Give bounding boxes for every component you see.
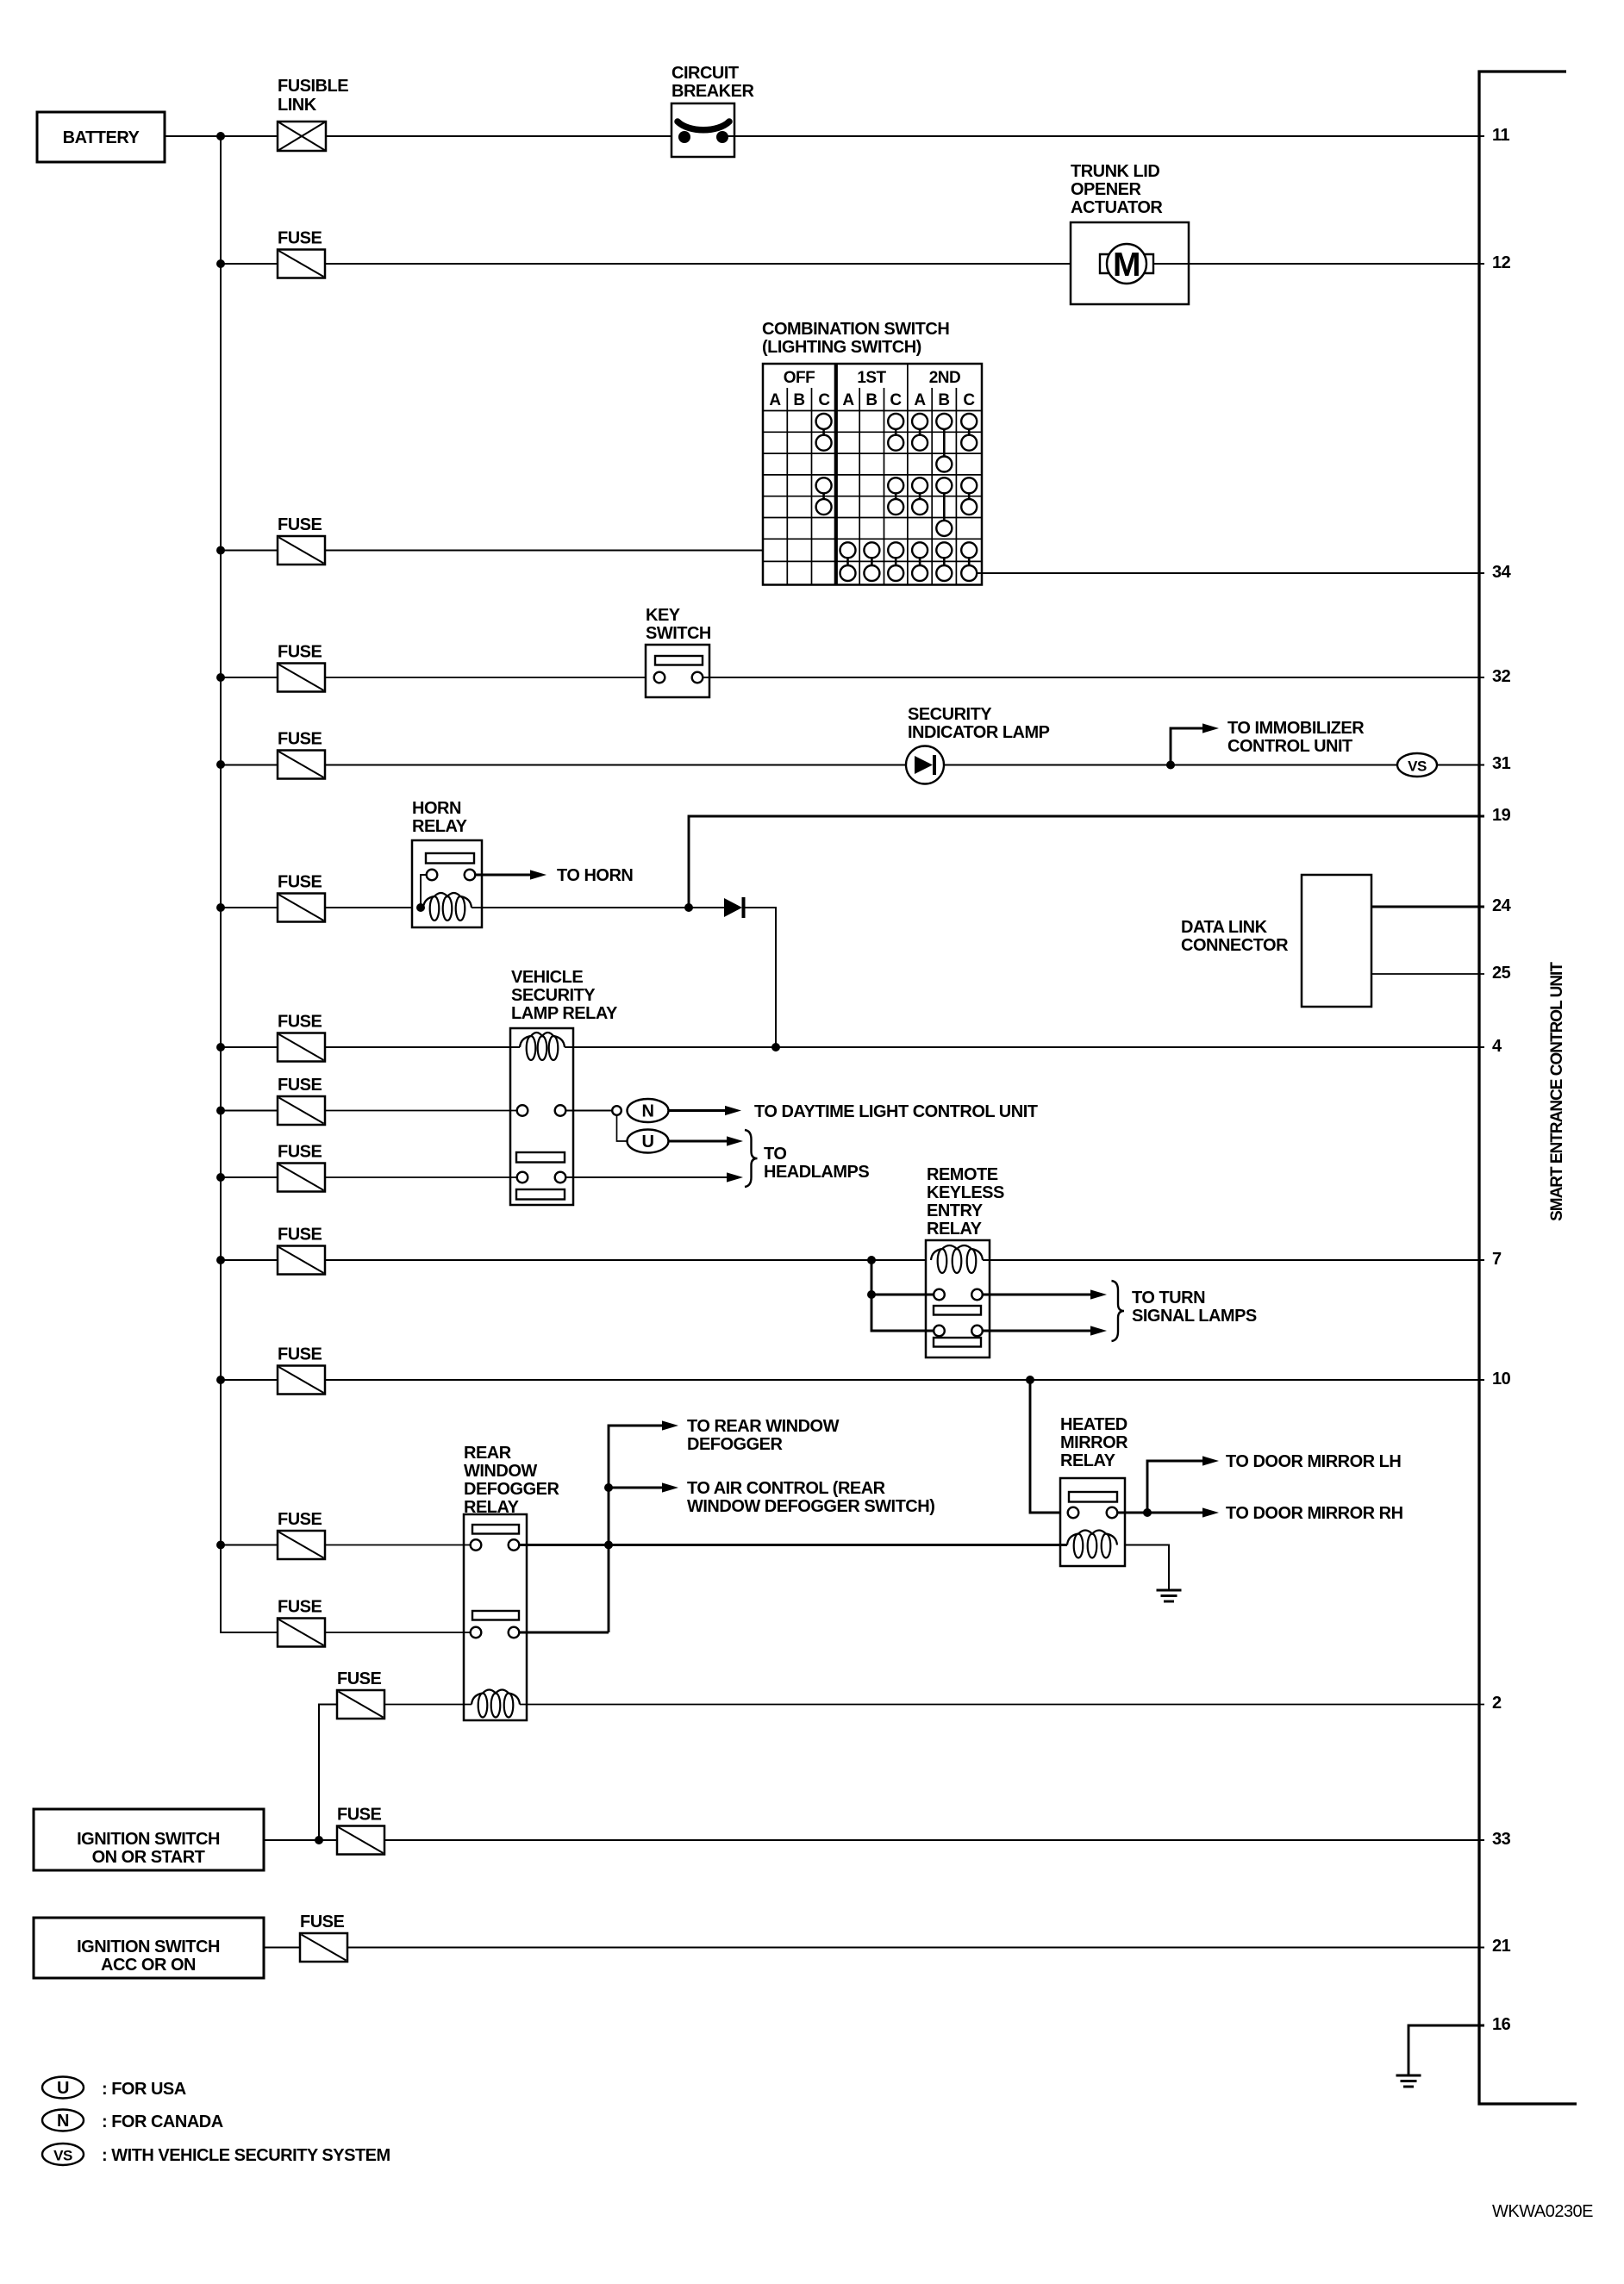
svg-text:FUSE: FUSE xyxy=(278,229,322,248)
wire diode down to pin 4 row xyxy=(744,908,776,1047)
wire combination switch to pin 34 xyxy=(977,572,1484,574)
ground (pin 16) xyxy=(1396,2075,1421,2087)
wire fuse to pin 10 xyxy=(325,1379,1484,1381)
svg-text:RELAY: RELAY xyxy=(1060,1451,1116,1470)
fuse (FUSE) at x=348 row y=2259.5 xyxy=(300,1913,347,1962)
remote keyless entry relay xyxy=(926,1165,1004,1357)
svg-text:: FOR USA: : FOR USA xyxy=(102,2080,186,2099)
svg-text:VS: VS xyxy=(1408,758,1427,775)
svg-text:B: B xyxy=(793,391,804,409)
defogger output riser xyxy=(609,1426,663,1632)
svg-text:32: 32 xyxy=(1492,667,1511,686)
wire relay contact 1 to N branch xyxy=(565,1110,612,1112)
wire fuse to pin 21 xyxy=(347,1947,1484,1949)
wire horn relay to diode xyxy=(472,907,724,908)
arrow TO HORN xyxy=(475,866,633,885)
wire defogger contact 2 to riser xyxy=(519,1632,609,1634)
svg-text:REMOTE: REMOTE xyxy=(927,1165,998,1184)
wire fuse to relay contact 1 xyxy=(325,1110,517,1112)
svg-text:24: 24 xyxy=(1492,896,1512,915)
wire junction xyxy=(216,1541,225,1550)
arrow TO AIR CONTROL xyxy=(609,1479,934,1516)
svg-text:C: C xyxy=(963,391,975,409)
svg-text:A: A xyxy=(842,391,854,409)
svg-text:FUSE: FUSE xyxy=(278,515,322,534)
svg-text:C: C xyxy=(818,391,830,409)
wire circuit breaker to pin 11 xyxy=(728,135,1484,137)
wire junction xyxy=(216,1107,225,1115)
wire keyless relay to pin 7 xyxy=(983,1259,1484,1261)
brace TO HEADLAMPS xyxy=(745,1130,869,1187)
wire ignition branch to coil fuse xyxy=(319,1705,337,1841)
svg-text:CIRCUIT: CIRCUIT xyxy=(671,64,739,83)
fuse (FUSE) at x=322 row y=1601 xyxy=(278,1345,325,1395)
svg-text:N: N xyxy=(57,2112,69,2131)
svg-text:INDICATOR LAMP: INDICATOR LAMP xyxy=(908,723,1050,742)
wire key switch to pin 32 xyxy=(703,677,1485,678)
svg-text:12: 12 xyxy=(1492,253,1511,272)
svg-text:10: 10 xyxy=(1492,1370,1511,1388)
fuse (FUSE) at x=322 row y=1366 xyxy=(278,1143,325,1192)
wire VS oval to pin 31 xyxy=(1437,764,1484,766)
svg-text:FUSE: FUSE xyxy=(278,873,322,892)
svg-text:ACC OR ON: ACC OR ON xyxy=(101,1956,196,1975)
arrow to daytime light control unit xyxy=(669,1102,1038,1121)
wire heated mirror relay contact to arrows xyxy=(1117,1512,1203,1514)
wire fuse to horn relay xyxy=(325,907,424,908)
wire junction xyxy=(216,1173,225,1182)
svg-text:FUSE: FUSE xyxy=(300,1913,345,1931)
svg-text:U: U xyxy=(57,2079,69,2098)
svg-text:TO AIR CONTROL (REAR: TO AIR CONTROL (REAR xyxy=(687,1479,886,1498)
svg-text:N: N xyxy=(642,1102,654,1121)
svg-text:TO TURN: TO TURN xyxy=(1132,1289,1205,1307)
wire junction xyxy=(604,1541,613,1550)
rear window defogger relay xyxy=(464,1444,560,1720)
svg-text:TO: TO xyxy=(764,1145,786,1164)
svg-text:RELAY: RELAY xyxy=(927,1220,983,1239)
wire junction xyxy=(1026,1376,1034,1384)
wire junction xyxy=(867,1290,876,1299)
wire fuse to trunk actuator xyxy=(325,263,1100,265)
bus stubs to fuses xyxy=(221,264,278,1545)
svg-text:FUSE: FUSE xyxy=(278,1143,322,1162)
svg-text:2: 2 xyxy=(1492,1694,1502,1713)
wire junction xyxy=(684,903,693,912)
wire fuse to defogger contact 2 xyxy=(325,1632,471,1633)
svg-text:ON OR START: ON OR START xyxy=(92,1848,205,1867)
wire defogger contact 1 to heated mirror coil xyxy=(519,1544,1067,1546)
wire lamp to VS oval xyxy=(944,764,1397,766)
wire fuse to relay coil (pin 4 row) xyxy=(325,1046,520,1048)
wire junction xyxy=(216,1043,225,1052)
svg-text:WINDOW DEFOGGER SWITCH): WINDOW DEFOGGER SWITCH) xyxy=(687,1497,934,1516)
wire junction xyxy=(1166,761,1175,770)
wire fuse to keyless relay coil xyxy=(325,1259,931,1261)
svg-text:TO HORN: TO HORN xyxy=(557,866,633,885)
smart entrance control unit bracket xyxy=(1479,72,1577,2104)
data link connector xyxy=(1181,875,1371,1007)
svg-text:ENTRY: ENTRY xyxy=(927,1201,984,1220)
arrow relay contact 2 to headlamps brace xyxy=(565,1172,743,1182)
svg-text:TO REAR WINDOW: TO REAR WINDOW xyxy=(687,1417,840,1436)
vehicle security lamp relay xyxy=(510,968,618,1205)
svg-text:21: 21 xyxy=(1492,1937,1511,1956)
legend U oval xyxy=(42,2077,84,2099)
fuse (FUSE) at x=391 row y=1977.5 xyxy=(337,1669,384,1719)
svg-text:B: B xyxy=(865,391,877,409)
combination switch (lighting switch) table xyxy=(762,320,982,585)
wire battery to bus xyxy=(165,135,278,137)
wire defogger coil to pin 2 xyxy=(520,1704,1484,1706)
wire junction xyxy=(216,1376,225,1384)
wire junction xyxy=(416,903,425,912)
wire N branch down to U oval xyxy=(617,1115,628,1141)
svg-text:DEFOGGER: DEFOGGER xyxy=(464,1480,560,1499)
wire fuse to key switch xyxy=(325,677,653,678)
svg-text:HEATED: HEATED xyxy=(1060,1415,1127,1434)
wire fuse to security indicator lamp xyxy=(325,764,907,766)
svg-text:VS: VS xyxy=(53,2148,72,2164)
wire fusible link to circuit breaker xyxy=(326,135,679,137)
svg-text:DEFOGGER: DEFOGGER xyxy=(687,1435,784,1454)
fuse (FUSE) at x=322 row y=786 xyxy=(278,643,325,692)
svg-text:DATA LINK: DATA LINK xyxy=(1181,918,1268,937)
ignition switch acc or on box xyxy=(34,1918,264,1978)
svg-text:TO IMMOBILIZER: TO IMMOBILIZER xyxy=(1227,719,1365,738)
svg-text:VEHICLE: VEHICLE xyxy=(511,968,583,987)
svg-text:TO DOOR MIRROR RH: TO DOOR MIRROR RH xyxy=(1226,1504,1403,1523)
svg-text:4: 4 xyxy=(1492,1037,1502,1056)
svg-text:HEADLAMPS: HEADLAMPS xyxy=(764,1163,869,1182)
fuse (FUSE) at x=322 row y=1792.5 xyxy=(278,1510,325,1559)
security indicator lamp (LED) xyxy=(906,705,1050,784)
battery box xyxy=(37,112,165,162)
svg-text:2ND: 2ND xyxy=(929,369,961,387)
svg-text:1ST: 1ST xyxy=(857,369,886,387)
svg-text:SECURITY: SECURITY xyxy=(511,986,596,1005)
svg-text:31: 31 xyxy=(1492,754,1511,773)
svg-text:25: 25 xyxy=(1492,964,1511,983)
wire ignition box to fuse xyxy=(264,1839,337,1841)
wire junction xyxy=(216,259,225,268)
svg-text:KEYLESS: KEYLESS xyxy=(927,1183,1004,1202)
svg-text:A: A xyxy=(769,391,781,409)
arrow TO DOOR MIRROR LH xyxy=(1147,1452,1401,1513)
svg-text:FUSE: FUSE xyxy=(337,1669,382,1688)
svg-text:FUSE: FUSE xyxy=(278,730,322,749)
svg-text:SWITCH: SWITCH xyxy=(646,624,711,643)
U oval (for USA) xyxy=(628,1130,669,1153)
wire fuse to pin 33 xyxy=(384,1839,1484,1841)
svg-text:FUSE: FUSE xyxy=(278,1013,322,1032)
svg-text:FUSE: FUSE xyxy=(278,1345,322,1364)
heated mirror relay xyxy=(1060,1415,1128,1566)
svg-text:(LIGHTING SWITCH): (LIGHTING SWITCH) xyxy=(762,338,921,357)
wire acc box to fuse xyxy=(264,1947,300,1949)
svg-text:ACTUATOR: ACTUATOR xyxy=(1071,198,1163,217)
fuse (FUSE) at x=391 row y=2135 xyxy=(337,1806,384,1855)
svg-text:CONNECTOR: CONNECTOR xyxy=(1181,936,1289,955)
svg-text:34: 34 xyxy=(1492,563,1512,582)
wire coil fuse to defogger coil xyxy=(384,1704,472,1706)
wire junction xyxy=(771,1043,780,1052)
svg-text:M: M xyxy=(1113,246,1140,284)
wire trunk actuator to pin 12 xyxy=(1153,263,1484,265)
svg-text:BREAKER: BREAKER xyxy=(671,82,754,101)
svg-text:RELAY: RELAY xyxy=(412,817,468,836)
N oval (for Canada) xyxy=(628,1099,669,1122)
fuse (FUSE) at x=322 row y=1894 xyxy=(278,1598,325,1647)
circuit breaker xyxy=(671,64,754,157)
fuse (FUSE) at x=322 row y=887 xyxy=(278,730,325,779)
svg-text:FUSE: FUSE xyxy=(278,1598,322,1617)
wire junction xyxy=(216,673,225,682)
fuse (FUSE) at x=322 row y=1462 xyxy=(278,1226,325,1275)
wire pin 19 to horn relay output node xyxy=(689,816,1484,908)
svg-text:FUSE: FUSE xyxy=(278,1510,322,1529)
svg-text:SECURITY: SECURITY xyxy=(908,705,992,724)
arrow to immobilizer control unit xyxy=(1171,719,1365,765)
wire data link connector to pin 24 xyxy=(1371,906,1484,908)
fuse (FUSE) at x=322 row y=1053 xyxy=(278,873,325,922)
wire pin10 branch down to heated mirror relay xyxy=(1030,1380,1068,1513)
svg-text:KEY: KEY xyxy=(646,606,681,625)
svg-text:16: 16 xyxy=(1492,2015,1511,2034)
arrow from U oval to headlamps brace xyxy=(669,1136,744,1145)
svg-text:U: U xyxy=(642,1133,654,1151)
svg-text:WINDOW: WINDOW xyxy=(464,1462,537,1481)
svg-text:FUSE: FUSE xyxy=(278,1076,322,1095)
fusible link xyxy=(278,77,348,151)
svg-text:A: A xyxy=(914,391,926,409)
svg-text:B: B xyxy=(938,391,949,409)
wire heated mirror coil to ground xyxy=(1125,1545,1169,1591)
svg-text:FUSE: FUSE xyxy=(337,1806,382,1825)
svg-text:COMBINATION SWITCH: COMBINATION SWITCH xyxy=(762,320,949,339)
wire data link connector to pin 25 xyxy=(1371,973,1484,975)
svg-text:HORN: HORN xyxy=(412,799,461,818)
svg-text:BATTERY: BATTERY xyxy=(63,128,141,147)
arrow TO DOOR MIRROR RH xyxy=(1202,1504,1403,1523)
wire junction xyxy=(315,1836,323,1844)
wire fuse to relay contact 2 xyxy=(325,1176,517,1178)
svg-text:LINK: LINK xyxy=(278,96,317,115)
wire junction xyxy=(216,132,225,140)
svg-text:WKWA0230E: WKWA0230E xyxy=(1492,2202,1593,2221)
wire relay coil to pin 4 xyxy=(565,1046,1484,1048)
fuse (FUSE) at x=322 row y=638.5 xyxy=(278,515,325,565)
wire junction xyxy=(216,903,225,912)
wire pin 16 to ground xyxy=(1409,2025,1484,2075)
svg-text:C: C xyxy=(890,391,902,409)
bus vertical wire xyxy=(221,136,278,1632)
legend VS oval xyxy=(42,2144,84,2165)
fuse (FUSE) at x=322 row y=1288.5 xyxy=(278,1076,325,1125)
VS oval (with vehicle security system) xyxy=(1397,753,1437,777)
horn relay xyxy=(412,799,482,927)
wire junction xyxy=(1143,1508,1152,1517)
fuse (FUSE) at x=322 row y=306 xyxy=(278,229,325,278)
svg-text:7: 7 xyxy=(1492,1250,1502,1269)
svg-text:TO DAYTIME LIGHT CONTROL UNIT: TO DAYTIME LIGHT CONTROL UNIT xyxy=(754,1102,1038,1121)
arrow turn signal 1 xyxy=(983,1289,1107,1299)
svg-text:: WITH VEHICLE SECURITY SYSTEM: : WITH VEHICLE SECURITY SYSTEM xyxy=(102,2146,390,2165)
brace TO TURN SIGNAL LAMPS xyxy=(1112,1281,1257,1341)
wire fuse to combination switch xyxy=(325,550,763,552)
svg-text:11: 11 xyxy=(1492,126,1510,145)
wire fuse to defogger contact 1 xyxy=(325,1545,471,1546)
wire junction xyxy=(867,1256,876,1264)
wire junction xyxy=(604,1483,613,1492)
svg-text:TO DOOR MIRROR LH: TO DOOR MIRROR LH xyxy=(1226,1452,1401,1471)
wire junction xyxy=(216,546,225,555)
svg-text:REAR: REAR xyxy=(464,1444,512,1463)
keyless relay contact feeds xyxy=(871,1260,934,1331)
fuse (FUSE) at x=322 row y=1215 xyxy=(278,1013,325,1062)
svg-text:CONTROL UNIT: CONTROL UNIT xyxy=(1227,737,1352,756)
wire junction xyxy=(216,1256,225,1264)
diode xyxy=(724,897,744,918)
svg-text:OFF: OFF xyxy=(784,369,815,387)
ground (heated mirror relay) xyxy=(1157,1590,1182,1601)
svg-text:FUSE: FUSE xyxy=(278,643,322,662)
svg-text:MIRROR: MIRROR xyxy=(1060,1433,1128,1452)
key switch xyxy=(646,606,711,697)
svg-text:IGNITION SWITCH: IGNITION SWITCH xyxy=(77,1938,220,1956)
arrow turn signal 2 xyxy=(983,1326,1107,1335)
svg-text:19: 19 xyxy=(1492,806,1511,825)
svg-text:OPENER: OPENER xyxy=(1071,180,1142,199)
svg-text:IGNITION SWITCH: IGNITION SWITCH xyxy=(77,1830,220,1849)
legend N oval xyxy=(42,2110,84,2131)
svg-text:33: 33 xyxy=(1492,1830,1511,1849)
trunk lid opener actuator xyxy=(1071,162,1189,304)
ignition switch on or start box xyxy=(34,1809,264,1870)
svg-text:TRUNK LID: TRUNK LID xyxy=(1071,162,1159,181)
svg-text:FUSIBLE: FUSIBLE xyxy=(278,77,348,96)
svg-text:SMART ENTRANCE CONTROL UNIT: SMART ENTRANCE CONTROL UNIT xyxy=(1548,962,1566,1221)
svg-text:: FOR CANADA: : FOR CANADA xyxy=(102,2112,223,2131)
svg-text:FUSE: FUSE xyxy=(278,1226,322,1245)
svg-text:SIGNAL LAMPS: SIGNAL LAMPS xyxy=(1132,1307,1257,1326)
wire junction xyxy=(216,760,225,769)
svg-text:LAMP RELAY: LAMP RELAY xyxy=(511,1004,618,1023)
open terminal circle xyxy=(612,1106,621,1115)
